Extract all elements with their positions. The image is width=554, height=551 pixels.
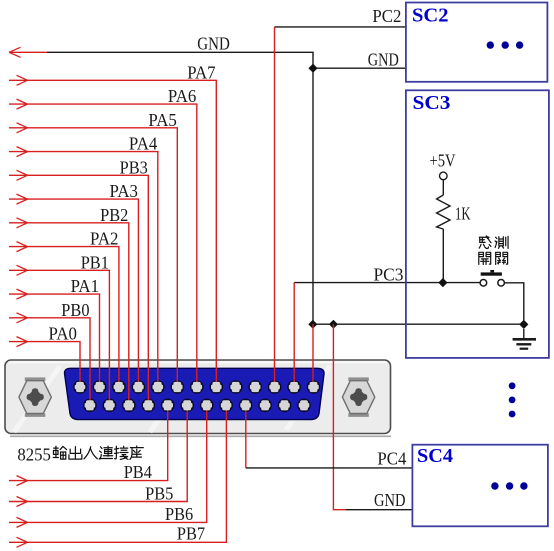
wire PB1	[9, 265, 109, 405]
svg-text:PB4: PB4	[124, 462, 152, 482]
svg-text:1K: 1K	[455, 204, 471, 224]
node vertical ellipsis dots between SC3 and SC4	[509, 382, 516, 417]
CJK 接	[114, 446, 127, 459]
svg-text:PA0: PA0	[49, 323, 78, 343]
CJK 出	[69, 447, 82, 459]
wire PB5	[9, 405, 187, 507]
wire PA5	[9, 123, 177, 387]
node SC2 dots	[487, 41, 524, 48]
box SC4	[412, 445, 548, 527]
connector blue D-shell	[65, 368, 325, 419]
node SC4 dots	[491, 482, 527, 489]
CJK 連	[99, 446, 112, 459]
node GND rail junction right	[329, 320, 338, 329]
svg-text:PB1: PB1	[81, 252, 109, 272]
screw nut right	[342, 377, 374, 417]
wire GND rail lower	[313, 323, 524, 325]
connector J1 body (8255 I/O DB25)	[5, 360, 391, 436]
node PC3 junction	[438, 278, 447, 287]
switch S1 pushbutton	[480, 270, 504, 286]
wire switch to GND drop	[504, 283, 523, 325]
CJK 測	[495, 236, 508, 248]
svg-text:PA1: PA1	[71, 276, 99, 296]
wire PC2 vertical to connector pin 11	[274, 27, 276, 387]
svg-text:PA6: PA6	[168, 86, 197, 106]
label 8255 I/O connector (8255 + CJK glyph strokes)	[17, 444, 143, 464]
wire PC4 vertical from pin 22	[245, 405, 247, 468]
ground symbol	[513, 329, 536, 349]
wire GND branch to SC2	[313, 67, 406, 69]
CJK 感	[479, 236, 491, 249]
wire PB4	[9, 405, 168, 486]
box SC2	[406, 3, 548, 82]
wire PB7	[9, 405, 226, 547]
resistor R1 1K	[437, 195, 450, 229]
wire PC3 horizontal	[294, 282, 480, 284]
svg-text:PB2: PB2	[100, 205, 128, 225]
wire GND vertical down to lower GND rail	[312, 68, 314, 324]
svg-text:+5V: +5V	[430, 150, 456, 170]
svg-text:GND: GND	[197, 34, 230, 54]
wire GND red vertical crossing connector to SC4	[333, 324, 346, 510]
screw nut left	[19, 377, 51, 417]
CJK 座	[130, 446, 143, 459]
connector pin contacts	[75, 382, 319, 411]
svg-text:PB6: PB6	[165, 504, 193, 524]
wire PC4 horizontal	[246, 467, 413, 469]
svg-text:SC3: SC3	[413, 92, 451, 114]
svg-text:PB5: PB5	[145, 483, 173, 503]
CJK 開	[479, 252, 491, 264]
wire GND red vertical from pin13 junction	[312, 324, 314, 387]
wire PA7	[9, 75, 216, 387]
connector pins top row (1-13)	[73, 380, 320, 412]
label sensor switch CJK (感測 / 開關)	[479, 236, 508, 265]
svg-text:GND: GND	[374, 490, 406, 510]
CJK 關	[496, 252, 508, 264]
svg-text:GND: GND	[368, 50, 399, 70]
svg-text:PA2: PA2	[90, 229, 118, 249]
svg-text:PA4: PA4	[129, 134, 158, 154]
svg-text:PA7: PA7	[187, 62, 216, 82]
svg-text:PB0: PB0	[61, 300, 89, 320]
wire GND top horizontal black to corner, down to junction	[47, 52, 313, 68]
wire PB6	[9, 405, 207, 527]
wire PA0	[9, 337, 80, 387]
svg-text:PA3: PA3	[110, 181, 139, 201]
svg-text:PC4: PC4	[377, 448, 406, 468]
wire GND top horizontal (red part with left arrow)	[9, 47, 47, 57]
svg-text:SC4: SC4	[417, 445, 453, 467]
svg-text:PC3: PC3	[374, 264, 404, 284]
node GND rail junction left	[308, 320, 317, 329]
wire GND SC4 horizontal black	[346, 509, 413, 511]
wire PC2 horizontal	[275, 26, 407, 28]
svg-text:PC2: PC2	[372, 6, 401, 26]
connector bottom shadow	[10, 435, 391, 437]
node GND junction at SC2 branch	[308, 64, 317, 73]
svg-text:SC2: SC2	[412, 5, 449, 27]
wire PA4	[9, 147, 158, 387]
wire PA6	[9, 99, 197, 387]
svg-text:PB7: PB7	[177, 523, 205, 543]
wire PB3	[9, 170, 148, 405]
wire PC3 vertical to connector pin 12	[293, 283, 295, 387]
wire PB0	[9, 313, 90, 405]
wire PA2	[9, 242, 119, 387]
wire PB2	[9, 218, 129, 405]
wire PA3	[9, 194, 138, 387]
svg-text:8255: 8255	[17, 444, 51, 464]
wire PA1	[9, 289, 100, 387]
box SC3	[406, 90, 549, 358]
CJK 入	[84, 447, 97, 459]
CJK 輸	[53, 446, 66, 459]
svg-text:PA5: PA5	[148, 110, 177, 130]
wire resistor to PC3 junction	[442, 229, 444, 283]
wire +5V to resistor	[442, 180, 444, 195]
svg-text:PB3: PB3	[120, 157, 148, 177]
node GND ground junction	[519, 320, 528, 329]
